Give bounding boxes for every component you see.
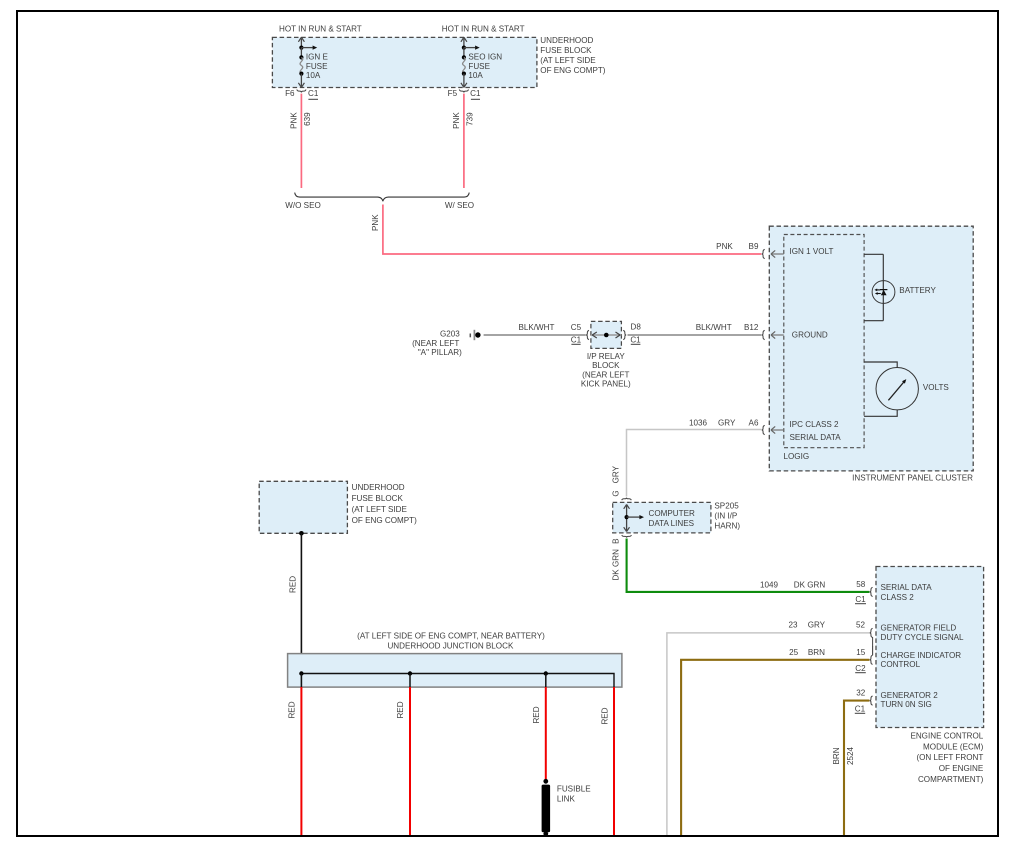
- svg-text:BLK/WHT: BLK/WHT: [696, 323, 732, 332]
- svg-text:C1: C1: [308, 89, 319, 98]
- svg-text:C1: C1: [630, 336, 641, 345]
- svg-text:(IN I/P: (IN I/P: [714, 512, 737, 521]
- svg-text:FUSE BLOCK: FUSE BLOCK: [540, 46, 592, 55]
- svg-text:GRY: GRY: [612, 465, 621, 483]
- svg-text:RED: RED: [396, 701, 405, 718]
- svg-text:52: 52: [856, 620, 866, 629]
- svg-text:23: 23: [788, 620, 798, 629]
- svg-text:10A: 10A: [468, 71, 483, 80]
- svg-text:DATA LINES: DATA LINES: [649, 519, 695, 528]
- svg-text:FUSE BLOCK: FUSE BLOCK: [352, 494, 404, 503]
- svg-text:(ON LEFT FRONT: (ON LEFT FRONT: [916, 753, 983, 762]
- svg-text:KICK PANEL): KICK PANEL): [581, 380, 631, 389]
- svg-text:RED: RED: [532, 706, 541, 723]
- svg-text:C1: C1: [855, 595, 866, 604]
- svg-text:GENERATOR 2: GENERATOR 2: [881, 691, 939, 700]
- svg-text:SP205: SP205: [714, 502, 739, 511]
- svg-text:UNDERHOOD: UNDERHOOD: [352, 483, 405, 492]
- svg-text:FUSIBLE: FUSIBLE: [557, 785, 591, 794]
- svg-text:(AT LEFT SIDE: (AT LEFT SIDE: [352, 505, 408, 514]
- svg-text:(NEAR LEFT: (NEAR LEFT: [412, 339, 459, 348]
- svg-text:SEO IGN: SEO IGN: [468, 52, 502, 61]
- svg-text:HOT IN RUN & START: HOT IN RUN & START: [279, 25, 362, 34]
- svg-text:COMPUTER: COMPUTER: [649, 509, 695, 518]
- svg-text:I/P RELAY: I/P RELAY: [587, 352, 626, 361]
- svg-text:32: 32: [856, 688, 866, 697]
- svg-text:GENERATOR FIELD: GENERATOR FIELD: [881, 624, 957, 633]
- svg-text:F5: F5: [448, 89, 458, 98]
- svg-text:DK GRN: DK GRN: [794, 581, 826, 590]
- svg-text:(NEAR LEFT: (NEAR LEFT: [582, 370, 629, 379]
- svg-text:15: 15: [856, 648, 866, 657]
- svg-text:IGN 1 VOLT: IGN 1 VOLT: [790, 247, 834, 256]
- svg-text:W/ SEO: W/ SEO: [445, 201, 474, 210]
- svg-text:A6: A6: [749, 419, 759, 428]
- svg-text:LINK: LINK: [557, 795, 576, 804]
- svg-text:C5: C5: [571, 323, 582, 332]
- svg-text:IPC CLASS 2: IPC CLASS 2: [790, 420, 840, 429]
- svg-text:C1: C1: [470, 89, 481, 98]
- svg-text:LOGIG: LOGIG: [784, 452, 810, 461]
- svg-text:PNK: PNK: [290, 112, 299, 129]
- svg-text:FUSE: FUSE: [306, 62, 328, 71]
- svg-text:CLASS 2: CLASS 2: [881, 593, 915, 602]
- svg-text:B12: B12: [744, 323, 759, 332]
- svg-text:MODULE (ECM): MODULE (ECM): [923, 743, 984, 752]
- svg-text:739: 739: [465, 112, 474, 126]
- svg-text:FUSE: FUSE: [468, 62, 490, 71]
- svg-text:58: 58: [856, 580, 866, 589]
- svg-text:TURN 0N SIG: TURN 0N SIG: [881, 700, 932, 709]
- svg-text:GRY: GRY: [808, 620, 826, 629]
- svg-text:(AT LEFT SIDE: (AT LEFT SIDE: [540, 56, 596, 65]
- svg-text:639: 639: [303, 112, 312, 126]
- svg-text:"A" PILLAR): "A" PILLAR): [418, 348, 462, 357]
- svg-text:CONTROL: CONTROL: [881, 660, 921, 669]
- svg-text:BLOCK: BLOCK: [592, 361, 620, 370]
- svg-text:BATTERY: BATTERY: [899, 286, 936, 295]
- svg-text:GROUND: GROUND: [792, 331, 828, 340]
- svg-text:CHARGE INDICATOR: CHARGE INDICATOR: [881, 651, 962, 660]
- svg-text:B: B: [612, 538, 621, 543]
- svg-text:RED: RED: [600, 707, 609, 724]
- svg-text:HARN): HARN): [714, 522, 740, 531]
- svg-text:OF ENG COMPT): OF ENG COMPT): [540, 66, 606, 75]
- svg-text:10A: 10A: [306, 71, 321, 80]
- svg-text:C1: C1: [571, 336, 582, 345]
- svg-text:G: G: [612, 490, 621, 496]
- svg-text:PNK: PNK: [452, 112, 461, 129]
- svg-text:GRY: GRY: [718, 419, 736, 428]
- svg-text:1036: 1036: [689, 419, 708, 428]
- svg-text:ENGINE CONTROL: ENGINE CONTROL: [910, 732, 983, 741]
- svg-text:UNDERHOOD: UNDERHOOD: [540, 36, 593, 45]
- svg-text:SERIAL DATA: SERIAL DATA: [790, 433, 842, 442]
- svg-text:PNK: PNK: [371, 214, 380, 231]
- svg-text:OF ENG COMPT): OF ENG COMPT): [352, 516, 418, 525]
- svg-text:PNK: PNK: [716, 242, 733, 251]
- svg-text:C2: C2: [855, 664, 866, 673]
- svg-text:W/O SEO: W/O SEO: [285, 201, 321, 210]
- svg-text:B9: B9: [749, 242, 759, 251]
- svg-text:OF ENGINE: OF ENGINE: [939, 764, 984, 773]
- svg-text:RED: RED: [289, 576, 298, 593]
- svg-text:UNDERHOOD JUNCTION BLOCK: UNDERHOOD JUNCTION BLOCK: [387, 642, 514, 651]
- svg-text:VOLTS: VOLTS: [923, 383, 950, 392]
- svg-text:COMPARTMENT): COMPARTMENT): [918, 775, 984, 784]
- svg-text:SERIAL DATA: SERIAL DATA: [881, 583, 933, 592]
- svg-text:D8: D8: [631, 322, 642, 331]
- svg-text:IGN E: IGN E: [306, 52, 329, 61]
- svg-text:2524: 2524: [846, 747, 855, 766]
- svg-text:(AT LEFT SIDE OF ENG COMPT, NE: (AT LEFT SIDE OF ENG COMPT, NEAR BATTERY…: [357, 632, 545, 641]
- svg-text:1049: 1049: [760, 581, 779, 590]
- svg-text:C1: C1: [855, 705, 866, 714]
- svg-text:RED: RED: [288, 701, 297, 718]
- svg-text:BRN: BRN: [832, 747, 841, 764]
- svg-text:DK GRN: DK GRN: [612, 549, 621, 581]
- svg-text:F6: F6: [285, 89, 295, 98]
- svg-text:25: 25: [789, 648, 799, 657]
- svg-text:INSTRUMENT PANEL CLUSTER: INSTRUMENT PANEL CLUSTER: [852, 473, 973, 482]
- svg-text:BLK/WHT: BLK/WHT: [519, 323, 555, 332]
- svg-text:G203: G203: [440, 330, 460, 339]
- svg-text:BRN: BRN: [808, 648, 825, 657]
- svg-text:HOT IN RUN & START: HOT IN RUN & START: [442, 25, 525, 34]
- svg-text:DUTY CYCLE SIGNAL: DUTY CYCLE SIGNAL: [881, 633, 965, 642]
